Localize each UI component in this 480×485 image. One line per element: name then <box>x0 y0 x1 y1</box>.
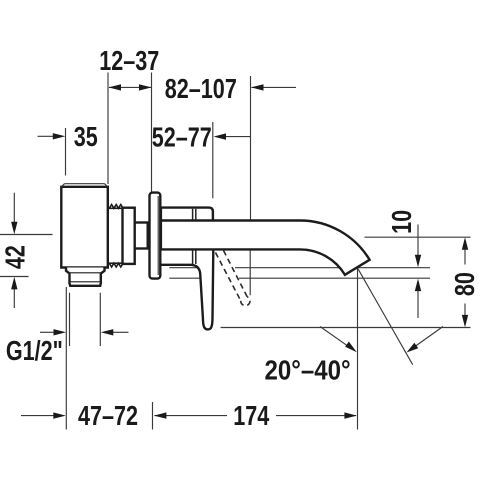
svg-text:12–37: 12–37 <box>99 47 159 77</box>
svg-text:174: 174 <box>233 402 269 432</box>
svg-text:35: 35 <box>74 123 98 153</box>
svg-text:20°–40°: 20°–40° <box>264 356 350 386</box>
svg-text:10: 10 <box>387 210 417 234</box>
svg-text:52–77: 52–77 <box>152 123 212 153</box>
svg-text:G1/2": G1/2" <box>6 337 63 367</box>
svg-text:47–72: 47–72 <box>78 402 138 432</box>
svg-text:42: 42 <box>1 245 31 269</box>
svg-text:82–107: 82–107 <box>165 75 237 105</box>
svg-text:80: 80 <box>451 272 480 296</box>
